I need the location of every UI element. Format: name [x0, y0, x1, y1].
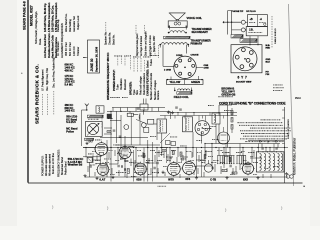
- svg-text:SECONDARY: SECONDARY: [192, 30, 209, 34]
- osc coil L2: [138, 115, 141, 120]
- small fixed capacitors: [89, 165, 91, 168]
- date stamp box: [88, 40, 100, 73]
- svg-text:BLK: BLK: [266, 62, 271, 64]
- wire speaker right lead: [186, 45, 188, 54]
- power transformer T3: [256, 152, 284, 172]
- svg-text:R-REQ. OF CHASSIS: R-REQ. OF CHASSIS: [287, 119, 290, 139]
- svg-text:Ballast: Ballast: [147, 60, 150, 68]
- margin note below border: [158, 185, 159, 188]
- electrolytic caps: [121, 165, 123, 168]
- svg-text:Oscillation: Oscillation: [120, 78, 123, 90]
- part value labels scattered: [94, 139, 97, 142]
- jack ring contact 2: [241, 28, 245, 32]
- mid trimmer circles: [124, 125, 129, 130]
- stamp margin mark: [82, 57, 85, 58]
- svg-text:Dial Setting: Dial Setting: [69, 19, 72, 32]
- resistor R2: [127, 169, 129, 174]
- svg-text:Generator Set: Generator Set: [73, 16, 76, 32]
- note text lines: [236, 121, 239, 124]
- ground bottom left: [84, 174, 86, 176]
- svg-text:SEARS ROEBUCK & CO.: SEARS ROEBUCK & CO.: [35, 64, 40, 124]
- svg-text:FIELD COIL: FIELD COIL: [174, 95, 189, 99]
- svg-text:SEARS PAGE 4-8: SEARS PAGE 4-8: [22, 1, 26, 30]
- wire osc section: [106, 140, 108, 160]
- svg-text:CHOKE: CHOKE: [191, 55, 199, 57]
- svg-text:VOICE COIL: VOICE COIL: [187, 16, 203, 20]
- jack ring contact 1: [241, 20, 245, 24]
- svg-text:MODEL 6327: MODEL 6327: [29, 5, 33, 26]
- small tube socket circle 2: [218, 132, 230, 144]
- tube V5 75: [167, 163, 180, 176]
- tube V1 6A7: [95, 143, 108, 156]
- tube V3 6D6: [119, 147, 131, 159]
- svg-text:Stock No. 4587: Stock No. 4587: [153, 35, 156, 52]
- svg-text:Antenna: Antenna: [157, 90, 160, 100]
- resistor R1: [87, 157, 92, 162]
- tube socket circle 6Y7: [233, 47, 257, 71]
- mid caps: [113, 129, 116, 131]
- voice coil box: [168, 21, 187, 28]
- svg-text:PRIMARY: PRIMARY: [191, 42, 203, 46]
- curl mark 4: [280, 207, 283, 210]
- svg-text:Tubes: Tubes: [150, 58, 153, 66]
- svg-text:1400 KC: 1400 KC: [73, 46, 76, 56]
- tuning condenser C1: [87, 123, 98, 134]
- svg-text:Stock No.: Stock No.: [113, 34, 116, 45]
- schematic bottom border: [28, 182, 303, 184]
- trimmer below: [85, 138, 94, 140]
- header rule: [27, 0, 29, 183]
- svg-text:All models operated: All models operated: [49, 153, 52, 176]
- svg-text:Chassis No.: Chassis No.: [109, 32, 112, 45]
- svg-text:Field coil resistance: Field coil resistance: [143, 72, 146, 95]
- svg-text:POWER SUPPLY:: POWER SUPPLY:: [41, 155, 44, 176]
- IF transformer T2: [183, 117, 193, 132]
- svg-text:POWER SUPPLY:: POWER SUPPLY:: [112, 70, 116, 91]
- wire drops upper band: [177, 113, 179, 116]
- mid small box: [127, 113, 133, 116]
- secondary bus: [205, 143, 280, 145]
- svg-text:6X5: 6X5: [243, 177, 248, 181]
- field coil core: [177, 92, 192, 95]
- svg-text:Data: Data: [38, 38, 42, 45]
- svg-text:I.F. Peak Alignment: I.F. Peak Alignment: [41, 69, 44, 91]
- top bus lower: [107, 110, 170, 112]
- svg-text:456 KC Pad: 456 KC Pad: [65, 42, 68, 56]
- svg-text:Dial drive cord diagram: Dial drive cord diagram: [145, 31, 148, 56]
- svg-text:6 Y 7: 6 Y 7: [238, 76, 248, 80]
- wire switch feeds: [218, 148, 220, 156]
- socket pins: [179, 59, 182, 62]
- svg-text:All models operated: All models operated: [45, 153, 48, 176]
- svg-text:on Page 4-9 below: on Page 4-9 below: [140, 36, 143, 56]
- band switch comb 1: [217, 155, 234, 157]
- wire socket right: [196, 66, 203, 68]
- transformer terminals: [258, 151, 259, 152]
- svg-text:W75: W75: [168, 177, 174, 181]
- svg-text:Tube: Tube: [117, 84, 120, 90]
- dashed cable line: [271, 16, 273, 48]
- svg-text:GREEN: GREEN: [191, 81, 200, 84]
- coil label: [87, 118, 90, 121]
- antenna symbol: [85, 104, 89, 110]
- wire right edge: [284, 107, 286, 183]
- svg-text:see Page 4-10 also: see Page 4-10 also: [149, 35, 152, 56]
- choke coil upper: [231, 35, 243, 39]
- svg-text:Maximum: Maximum: [124, 79, 127, 90]
- svg-text:105-125 Volts, 50-60 Cy.: 105-125 Volts, 50-60 Cy.: [43, 3, 47, 32]
- tuning condenser box: [85, 122, 102, 137]
- svg-text:Ant.Post, Gnd.Post: Ant.Post, Gnd.Post: [43, 34, 47, 58]
- svg-text:J.B.: J.B.: [249, 29, 254, 32]
- svg-text:Hank Wound Coils: Hank Wound Coils: [50, 35, 54, 58]
- output transformer primary coil: [161, 43, 188, 45]
- ground ant: [86, 142, 88, 144]
- speaker cone: [169, 12, 186, 14]
- diag wire: [160, 133, 170, 143]
- wire mid verticals: [110, 111, 112, 147]
- svg-text:I.F. Trimmers: I.F. Trimmers: [57, 41, 60, 56]
- svg-text:©John F. Rider, Publisher: ©John F. Rider, Publisher: [293, 137, 297, 175]
- svg-text:SPEAKER:: SPEAKER:: [128, 81, 132, 95]
- small resistors extra: [143, 154, 145, 158]
- terminal strip box B: [246, 27, 267, 36]
- tube socket box: [231, 45, 262, 73]
- svg-text:600 KC Pad: 600 KC Pad: [69, 42, 72, 56]
- svg-text:CHASSIS FEATURES:: CHASSIS FEATURES:: [146, 69, 150, 96]
- resistor R3: [172, 151, 174, 155]
- wire speaker left lead: [162, 45, 164, 67]
- svg-text:1400 KC: 1400 KC: [65, 109, 75, 113]
- margin mark: [21, 73, 22, 74]
- IF transformer T1: [157, 119, 167, 133]
- output transformer box: [212, 113, 220, 124]
- wire mid band: [100, 137, 148, 139]
- svg-text:September 16, 1936: September 16, 1936: [94, 46, 98, 72]
- caption small row: [217, 95, 220, 98]
- bus junction ticks: [112, 108, 114, 112]
- svg-text:5.4 MC: 5.4 MC: [65, 82, 73, 86]
- svg-text:170 Watts Consumption: 170 Watts Consumption: [47, 2, 51, 32]
- svg-text:Output Level: Output Level: [77, 15, 80, 30]
- svg-text:from AC or DC line: from AC or DC line: [52, 153, 55, 174]
- extra dotted leaders: [140, 58, 142, 72]
- svg-text:FREQUENCY RANGES:: FREQUENCY RANGES:: [57, 149, 60, 177]
- 6Y7 socket pins: [242, 48, 246, 52]
- wire transformer feeds: [258, 144, 260, 152]
- svg-text:C-7B: C-7B: [210, 177, 216, 181]
- ground if: [168, 111, 170, 113]
- top bus upper: [112, 107, 165, 109]
- speaker terminal box: [167, 80, 204, 85]
- svg-text:RED: RED: [266, 48, 271, 50]
- svg-text:JUNE 30: JUNE 30: [90, 58, 94, 71]
- wire if section: [161, 133, 163, 148]
- svg-text:Police: Police: [66, 129, 74, 133]
- tube V7 6X5 rectifier: [242, 163, 253, 174]
- svg-text:Weather Bd: Weather Bd: [68, 163, 83, 167]
- svg-text:PIN: PIN: [266, 74, 270, 76]
- wire voice coil leads: [168, 27, 170, 30]
- wire socket left: [163, 65, 174, 67]
- osc grid cap box: [140, 104, 148, 110]
- svg-text:Speaker No.: Speaker No.: [105, 31, 108, 45]
- ground mid: [162, 171, 164, 173]
- curl mark 2: [106, 207, 109, 210]
- pilot lamp: [286, 175, 290, 179]
- svg-text:5.4-15.5: 5.4-15.5: [66, 120, 76, 124]
- junction dots bus: [110, 147, 111, 148]
- wire slope: [136, 119, 147, 124]
- svg-text:PHONE TIP: PHONE TIP: [232, 11, 244, 13]
- svg-text:105-125 Volts, 25 Cyc.: 105-125 Volts, 25 Cyc.: [50, 5, 54, 32]
- svg-text:456 KC: 456 KC: [65, 69, 74, 73]
- tube V4 6D6: [135, 163, 147, 175]
- top small labels: [110, 96, 111, 99]
- detector tube socket circle: [195, 121, 210, 136]
- caps near field coil tap: [175, 106, 178, 108]
- extra junction dots: [85, 147, 86, 148]
- socket circle leads: [198, 116, 200, 121]
- resistor R5: [222, 170, 227, 172]
- note heading line: [259, 118, 262, 121]
- speaker plug socket circle: [174, 56, 196, 78]
- small boxes lower left mid: [166, 141, 171, 145]
- svg-text:Osc. High Freq. Trim: Osc. High Freq. Trim: [46, 68, 49, 91]
- wire above transformer: [248, 140, 284, 142]
- svg-text:6A7: 6A7: [89, 141, 94, 144]
- band clutter labels: [91, 150, 94, 153]
- antenna coil core: [87, 115, 103, 118]
- resistor R6: [232, 172, 237, 174]
- svg-text:Wave Band Pos.: Wave Band Pos.: [65, 13, 68, 32]
- svg-text:Police Band: Police Band: [64, 161, 67, 175]
- svg-text:6.A7: 6.A7: [99, 177, 105, 181]
- svg-text:YELLOW: YELLOW: [170, 81, 181, 84]
- curl mark 3: [224, 209, 227, 212]
- curl mark 1: [51, 206, 54, 210]
- phone tip lead: [224, 21, 241, 23]
- wire jack box links: [249, 36, 251, 45]
- svg-text:-A: -A: [260, 18, 263, 21]
- band switch comb 2: [237, 155, 247, 157]
- main B+ bus: [83, 147, 285, 149]
- dense band clutter wires: [92, 155, 94, 163]
- transformer core: [164, 36, 191, 39]
- svg-text:1 OHM: 1 OHM: [164, 70, 171, 72]
- svg-text:OF PLUG: OF PLUG: [246, 11, 256, 13]
- svg-text:ALIGNMENT FREQUENCIES:: ALIGNMENT FREQUENCIES:: [60, 22, 64, 58]
- svg-text:COND: COND: [176, 55, 183, 57]
- svg-text:+B: +B: [250, 18, 253, 21]
- resistor stack right: [231, 111, 233, 116]
- svg-text:CABLE SHIELD: CABLE SHIELD: [274, 28, 277, 44]
- svg-text:OHM: OHM: [204, 68, 209, 70]
- svg-text:PM-C: PM-C: [295, 97, 301, 100]
- plug vertical wires: [227, 11, 229, 35]
- svg-text:Outside Aerial Conn.: Outside Aerial Conn.: [47, 32, 51, 58]
- svg-text:Osc. Low Freq. Padder Adj.: Osc. Low Freq. Padder Adj.: [53, 57, 56, 88]
- resistor R4: [180, 152, 182, 156]
- svg-text:6D6: 6D6: [136, 177, 142, 181]
- svg-text:6F6: 6F6: [185, 177, 190, 181]
- page fold line: [289, 4, 294, 186]
- svg-text:Alignment data given: Alignment data given: [136, 33, 139, 56]
- tube V2 6A7: [97, 164, 109, 176]
- svg-text:Trimmer: Trimmer: [77, 47, 80, 56]
- output transformer secondary coil: [170, 31, 185, 33]
- wire ant left: [81, 110, 83, 146]
- table values top: [113, 55, 116, 58]
- ground switch: [226, 176, 228, 178]
- extra wire verticals: [85, 148, 87, 158]
- wire box to socket: [170, 77, 172, 80]
- capacitor can: [204, 164, 212, 172]
- coupling cap: [156, 162, 158, 165]
- svg-text:Padder Adj.: Padder Adj.: [57, 19, 60, 32]
- svg-text:SOCKET VIEW: SOCKET VIEW: [236, 82, 252, 84]
- choke coil lower: [240, 39, 257, 43]
- mid dark component: [107, 114, 112, 119]
- wire upper band: [170, 112, 237, 114]
- bottom bus: [85, 176, 288, 178]
- pilot lamp note: [273, 84, 274, 87]
- tube V6 6F6: [183, 162, 196, 175]
- osc padder box: [148, 119, 154, 124]
- svg-text:Number of tuned circuits: Number of tuned circuits: [150, 72, 153, 100]
- svg-text:GREEN-GB: GREEN-GB: [221, 93, 235, 97]
- extra wire horizontals: [83, 156, 101, 158]
- svg-text:INTERMEDIATE FREQUENCY 456 KC: INTERMEDIATE FREQUENCY 456 KC: [106, 53, 110, 100]
- terminal strip box A: [248, 15, 268, 27]
- wire tube row verticals: [110, 148, 112, 182]
- field coil winding: [178, 89, 190, 90]
- antenna coil box: [96, 106, 104, 113]
